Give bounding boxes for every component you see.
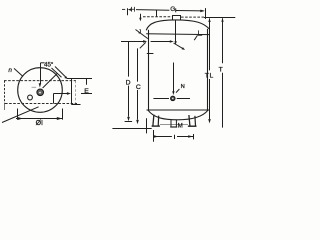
T line upper xyxy=(222,18,224,63)
svg-text:TL: TL xyxy=(205,73,214,80)
hidden base rect left edge (dashed) xyxy=(4,81,6,104)
small dash left of center xyxy=(32,86,37,88)
left foot xyxy=(152,125,160,127)
L tick xyxy=(198,34,203,36)
TL line lower xyxy=(209,79,211,119)
right leg front xyxy=(189,115,190,126)
angle tick stroke 2 with arrow xyxy=(55,67,66,78)
hidden base rect right edge (dashed) xyxy=(75,81,77,104)
bottom dim extension right xyxy=(193,134,195,139)
top head dome xyxy=(146,20,210,30)
side port circle xyxy=(171,96,175,100)
top-left leader line xyxy=(14,68,23,76)
H-G dim line right segment xyxy=(176,10,203,12)
E leader vertical leg xyxy=(53,94,55,104)
45deg radial line xyxy=(43,73,58,88)
45deg bracket line xyxy=(41,62,45,64)
H-G dim line left arrow xyxy=(128,8,132,11)
svg-text:D: D xyxy=(126,79,131,86)
center fitting dark segment xyxy=(37,94,40,96)
radial arrowhead at center xyxy=(39,83,42,87)
tank shell circle (top view) xyxy=(18,68,63,113)
bottom weld seam xyxy=(147,109,210,111)
right extension line xyxy=(205,8,207,19)
D dimension line upper xyxy=(128,42,130,77)
diameter extension line right xyxy=(62,109,64,120)
side port dark fill xyxy=(171,99,174,101)
top fitting stub xyxy=(173,16,181,21)
leader diagonal lower xyxy=(140,42,146,48)
base vertical mark xyxy=(146,118,148,133)
T top arrow xyxy=(221,18,223,22)
L diagonal xyxy=(194,35,197,40)
left extension tick xyxy=(127,8,129,15)
G center tick xyxy=(175,8,177,12)
svg-text:G: G xyxy=(170,6,175,13)
bottom drain stub left xyxy=(170,120,172,127)
bottom dim line left xyxy=(154,136,172,138)
bottom dim right arrow xyxy=(188,135,193,138)
D dimension line lower xyxy=(128,86,130,117)
svg-text:45°: 45° xyxy=(44,61,54,68)
right bracket vertical xyxy=(71,79,73,105)
center dot xyxy=(39,92,41,94)
small tick at 156 xyxy=(156,10,158,16)
N leader xyxy=(176,89,179,93)
G right arrow xyxy=(200,10,205,13)
svg-text:T: T xyxy=(219,66,223,73)
center line lower arrow xyxy=(172,91,174,95)
TL top arrow xyxy=(208,18,210,22)
bottom-left diagonal leader xyxy=(2,107,39,123)
H-G dim line mid segment xyxy=(136,9,169,12)
svg-text:E: E xyxy=(84,88,89,95)
bottom drain cap xyxy=(170,126,177,128)
floor line left xyxy=(112,128,151,130)
svg-text:N: N xyxy=(181,84,185,90)
right foot xyxy=(188,125,197,127)
C dimension line upper xyxy=(137,48,139,81)
bottom dim center tick xyxy=(174,135,176,139)
svg-text:M: M xyxy=(178,122,183,129)
right flange top line xyxy=(67,78,92,80)
E dimension bottom tick xyxy=(81,93,92,95)
TL line upper xyxy=(209,18,211,70)
E dimension line upper segment xyxy=(86,79,88,85)
bottom head dish xyxy=(148,110,208,120)
shell right edge xyxy=(207,29,209,110)
left leg rear xyxy=(157,116,160,126)
C bottom arrow xyxy=(136,120,139,124)
T line lower xyxy=(222,73,224,128)
TL bottom arrow xyxy=(208,119,211,123)
vertical radial line 0deg xyxy=(40,63,42,84)
svg-text:L: L xyxy=(198,30,202,37)
svg-text:n: n xyxy=(8,67,12,74)
diameter dim line xyxy=(16,118,63,120)
top reference solid extension xyxy=(204,17,235,19)
line between feet xyxy=(160,124,188,126)
mid leader to centerline xyxy=(151,41,172,43)
center line lower xyxy=(173,63,175,93)
J diagonal upper xyxy=(136,30,148,39)
svg-text:ØI: ØI xyxy=(36,120,43,127)
left leg front xyxy=(153,115,154,126)
angle tick stroke 1 xyxy=(52,68,62,77)
shell left edge xyxy=(148,30,150,110)
down arrow tick at H end xyxy=(140,14,142,19)
left edge lower tick xyxy=(4,104,6,111)
bottom drain stub right xyxy=(175,120,177,127)
port horizontal line left xyxy=(153,98,169,100)
hidden base rect top edge (dashed) xyxy=(4,80,76,82)
bottom dim line right xyxy=(177,136,194,138)
D leader horizontal with arrow xyxy=(121,41,145,43)
center line upper arrow xyxy=(174,41,176,45)
side port dot xyxy=(172,98,173,99)
bottom dim extension left xyxy=(153,130,155,142)
diameter dim right arrow xyxy=(57,117,63,120)
port horizontal line right xyxy=(177,98,190,100)
top weld seam xyxy=(146,33,210,36)
diameter dim left arrow xyxy=(17,117,23,120)
D landing tick xyxy=(125,121,133,123)
center fitting circle xyxy=(37,89,44,96)
bottom dim left arrow xyxy=(154,135,159,138)
lower-left port circle xyxy=(28,95,33,100)
svg-text:C: C xyxy=(136,84,141,91)
top reference dashed line right part xyxy=(181,16,204,18)
svg-text:H: H xyxy=(131,6,136,13)
right bracket bottom flange xyxy=(72,104,81,106)
left port tick xyxy=(147,53,154,55)
E leader horizontal with arrow xyxy=(54,93,70,95)
hidden base rect bottom edge (dashed) xyxy=(5,103,77,105)
center line upper xyxy=(175,20,177,41)
top reference dashed line left part xyxy=(143,16,172,18)
diagonal leader to port K xyxy=(174,43,184,49)
C dimension line lower xyxy=(137,90,139,120)
diameter extension line left xyxy=(17,109,19,120)
right leg rear xyxy=(194,116,197,126)
D bottom arrow xyxy=(127,117,130,121)
